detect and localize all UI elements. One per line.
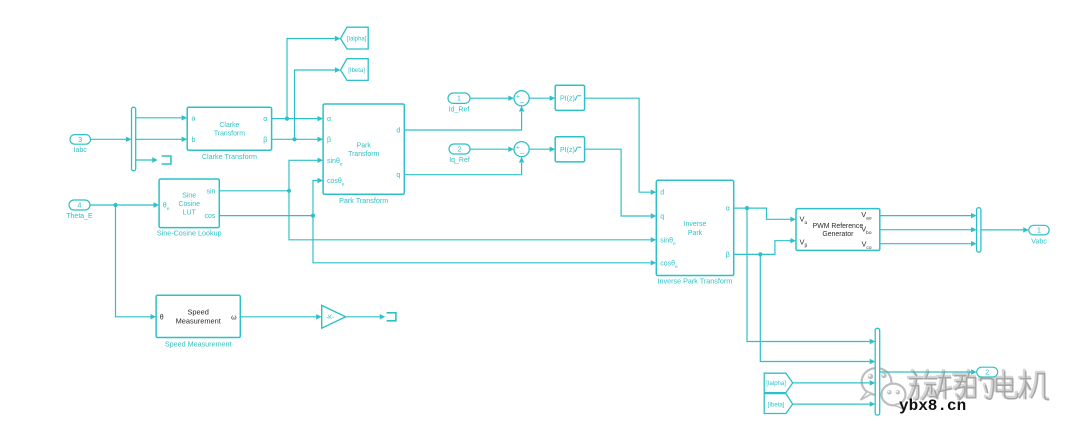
svg-text:β: β (263, 137, 267, 144)
svg-text:Iabc: Iabc (74, 147, 88, 154)
svg-text:α: α (726, 206, 730, 213)
svg-text:β: β (726, 252, 730, 259)
svg-text:Cosine: Cosine (178, 201, 200, 208)
svg-text:PWM Reference: PWM Reference (813, 223, 864, 230)
svg-text:Speed Measurement: Speed Measurement (165, 339, 232, 348)
svg-text:Id_Ref: Id_Ref (449, 106, 470, 113)
svg-text:[Ialpha]: [Ialpha] (766, 381, 786, 387)
svg-text:PI(z): PI(z) (560, 95, 575, 102)
svg-text:θ: θ (160, 314, 164, 321)
svg-text:4: 4 (78, 203, 82, 210)
svg-text:1: 1 (1037, 228, 1041, 235)
svg-text:Sine: Sine (182, 192, 196, 199)
svg-text:Park Transform: Park Transform (339, 196, 388, 205)
svg-text:Clarke Transform: Clarke Transform (202, 152, 257, 161)
svg-text:Clarke: Clarke (219, 122, 239, 129)
svg-text:Inverse: Inverse (684, 221, 707, 228)
svg-text:Sine-Cosine Lookup: Sine-Cosine Lookup (157, 229, 222, 238)
svg-text:2: 2 (458, 147, 462, 154)
svg-text:ybx8.cn: ybx8.cn (899, 397, 966, 415)
svg-text:1: 1 (457, 96, 461, 103)
svg-text:Speed: Speed (188, 307, 209, 316)
svg-text:Iq_Ref: Iq_Ref (449, 157, 470, 164)
svg-text:3: 3 (78, 137, 82, 144)
svg-text:Generator: Generator (822, 231, 854, 238)
svg-text:[Ibeta]: [Ibeta] (348, 68, 365, 74)
svg-text:Transform: Transform (214, 131, 245, 138)
svg-text:Park: Park (357, 142, 372, 149)
svg-text:q: q (660, 214, 664, 221)
svg-text:Park: Park (688, 230, 703, 237)
svg-text:β: β (327, 137, 331, 144)
svg-text:b: b (192, 137, 196, 144)
svg-text:sin: sin (206, 188, 215, 195)
svg-text:[Ibeta]: [Ibeta] (768, 402, 785, 408)
svg-text:2: 2 (985, 370, 989, 377)
svg-text:a: a (192, 116, 196, 123)
svg-text:q: q (396, 172, 400, 179)
svg-text:Transform: Transform (348, 151, 379, 158)
svg-text:LUT: LUT (183, 210, 197, 217)
svg-text:ω: ω (231, 314, 237, 321)
svg-text:Inverse Park Transform: Inverse Park Transform (658, 276, 733, 285)
svg-text:PI(z): PI(z) (560, 147, 575, 154)
svg-text:-K-: -K- (326, 315, 334, 321)
svg-text:Measurement: Measurement (176, 316, 221, 325)
svg-text:Theta_E: Theta_E (66, 213, 93, 220)
svg-text:cos: cos (204, 213, 215, 220)
svg-text:d: d (396, 128, 400, 135)
svg-text:[Ialpha]: [Ialpha] (347, 37, 367, 43)
svg-text:α: α (263, 116, 267, 123)
svg-text:α: α (327, 116, 331, 123)
svg-text:d: d (660, 190, 664, 197)
svg-text:Vabc: Vabc (1031, 238, 1047, 245)
